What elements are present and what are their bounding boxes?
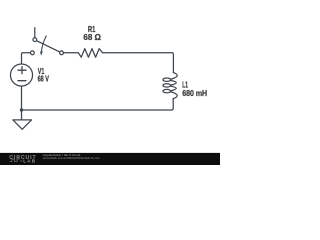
svg-text:68 Ω: 68 Ω bbox=[83, 32, 101, 42]
svg-text:68 V: 68 V bbox=[38, 74, 50, 84]
svg-text:circuitlab.com/c/5b3e5d3e/lab-: circuitlab.com/c/5b3e5d3e/lab-5-circ bbox=[43, 156, 101, 160]
svg-text:LAB: LAB bbox=[23, 159, 36, 164]
svg-text:680 mH: 680 mH bbox=[182, 88, 207, 98]
